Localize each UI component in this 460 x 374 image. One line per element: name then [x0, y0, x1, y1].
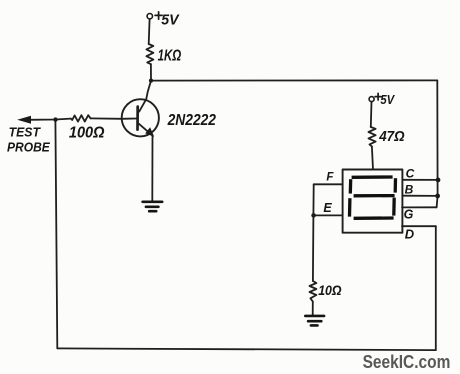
svg-text:F: F — [326, 171, 334, 183]
svg-text:D: D — [405, 226, 415, 241]
svg-text:47Ω: 47Ω — [378, 129, 405, 145]
svg-text:E: E — [323, 201, 332, 215]
svg-text:10Ω: 10Ω — [318, 283, 342, 298]
svg-text:B: B — [405, 182, 414, 196]
svg-text:SeekIC.com: SeekIC.com — [363, 352, 451, 372]
svg-text:5V: 5V — [380, 93, 395, 107]
svg-text:2N2222: 2N2222 — [167, 112, 216, 129]
svg-text:5V: 5V — [161, 11, 180, 28]
svg-text:PROBE: PROBE — [7, 139, 50, 154]
svg-text:1KΩ: 1KΩ — [158, 48, 182, 65]
svg-text:100Ω: 100Ω — [69, 125, 105, 142]
svg-text:TEST: TEST — [9, 124, 41, 139]
svg-text:C: C — [406, 166, 415, 180]
svg-text:G: G — [404, 208, 414, 222]
